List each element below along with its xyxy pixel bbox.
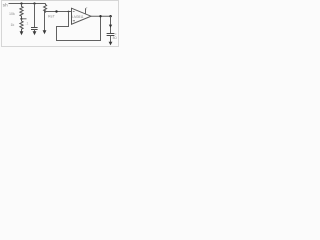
node: divider tap junction [20,18,22,20]
capacitor C2 [107,33,115,35]
svg-text:8Ω: 8Ω [113,36,118,40]
wire: tap stub [22,18,27,20]
polarity arrow on load branch [109,25,112,28]
junction: rail to C1 [33,2,35,4]
wire: feedback loop (output to input) [57,12,101,41]
wire: +V rail [9,3,46,5]
svg-text:sh: sh [3,3,8,9]
resistor R3 [44,4,47,12]
wire: to inverting input [45,11,72,13]
wire: C1 from rail [34,4,36,28]
svg-text:10k: 10k [9,12,15,16]
wire: C1 to ground [34,30,36,33]
svg-text:.1: .1 [26,22,29,26]
wire: C2 to ground [110,36,112,43]
ground (arrow) below R2 [20,31,24,35]
junction: feedback tee at input [68,11,70,13]
wire: R3 node to ground [44,12,46,32]
junction: rail to R1 [20,2,22,4]
junction: R3 to input wire [44,10,46,12]
junction: on input wire [55,10,57,12]
resistor R1 [20,4,23,19]
U1 inverting input marker [73,11,75,13]
op-amp U1 [72,8,92,24]
ground (arrow) below C2 [109,42,113,46]
ground (arrow) below R3 node [43,30,47,34]
U1 non-inverting input marker [73,20,75,22]
U1 V+ pin stub [85,8,87,14]
svg-text:ReT: ReT [48,15,56,19]
junction: output to feedback [99,15,101,17]
junction: output to load [109,15,111,17]
svg-text:7: 7 [86,7,88,11]
wire: load branch down [110,16,112,33]
resistor R2 [20,19,23,32]
ground (arrow) below C1 [33,31,37,35]
svg-text:LM3911: LM3911 [72,15,84,19]
wire: output [91,15,112,17]
capacitor C1 [31,27,38,29]
svg-text:1k: 1k [11,23,15,27]
